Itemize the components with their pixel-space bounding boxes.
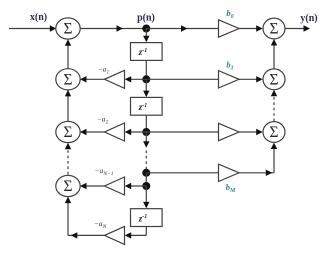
delay Z1 (z^-1) xyxy=(131,43,163,61)
svg-text:x(n): x(n) xyxy=(30,12,47,23)
wire U7 up to U6 dashed xyxy=(271,90,277,122)
svg-text:p(n): p(n) xyxy=(137,13,155,24)
wire p(n) down to delay Z1 xyxy=(143,29,149,43)
gain bM (triangle) xyxy=(219,164,240,181)
wire -a2 to summer U3 xyxy=(80,129,105,135)
node N2 junction dot xyxy=(142,75,150,83)
node N4 junction dot xyxy=(142,169,150,177)
summer U2 (second-left sigma) xyxy=(56,69,80,90)
wire -aN-1 to summer U4 xyxy=(80,183,105,189)
wire -a1 to summer U2 xyxy=(80,76,105,82)
summer U7 (third-right sigma) xyxy=(263,122,285,143)
svg-text:Σ: Σ xyxy=(63,178,72,195)
node p(n) junction dot xyxy=(142,25,150,33)
summer U1 (top-left sigma) xyxy=(56,18,80,39)
svg-text:Σ: Σ xyxy=(269,21,278,38)
svg-text:Σ: Σ xyxy=(63,124,72,141)
svg-text:Σ: Σ xyxy=(63,71,72,88)
wire N2 to gain -a1 xyxy=(125,76,147,82)
summer U3 (third-left sigma) xyxy=(56,121,80,142)
wire U6 up to U5 xyxy=(271,39,277,69)
wire N5 down to delay Z3 xyxy=(143,186,149,208)
wire b0 to summer U5 xyxy=(239,25,263,31)
wire N3 to gain -a2 xyxy=(125,129,147,135)
svg-text:Σ: Σ xyxy=(63,21,72,38)
wire N3 down dashed to node N4 xyxy=(143,132,149,170)
gain -aN-1 (triangle) xyxy=(105,177,125,195)
gain -aN (triangle) xyxy=(105,226,125,244)
gain -a2 (triangle) xyxy=(105,123,125,141)
wire Z3 down and left to gain -aN xyxy=(125,227,147,239)
svg-text:y(n): y(n) xyxy=(300,13,317,24)
summer U5 (top-right sigma) xyxy=(263,18,285,39)
wire N2 down to delay Z2 xyxy=(143,79,149,97)
wire N4 down to node N5 xyxy=(145,173,147,186)
wire input x(n) to summer U1 xyxy=(9,25,56,31)
gain b1 (triangle) xyxy=(219,71,240,88)
delay Z2 (z^-1) xyxy=(131,97,163,115)
wire b1 to summer U6 xyxy=(239,76,263,82)
wire N3 to gain b2 xyxy=(146,131,218,133)
wire N5 to gain -aN-1 xyxy=(125,183,147,189)
node N3 junction dot xyxy=(142,128,150,136)
wire U4 up to U3 dashed xyxy=(65,143,71,176)
wire -aN left and up to U4 xyxy=(65,197,105,239)
wire N2 to gain b1 xyxy=(146,78,218,80)
node N5 junction dot xyxy=(142,182,150,190)
wire N4 to gain bM xyxy=(146,172,218,174)
wire b2 to summer U7 xyxy=(239,129,263,135)
gain b2 (triangle, unlabeled) xyxy=(219,123,240,140)
svg-text:Σ: Σ xyxy=(269,124,278,141)
summer U6 (second-right sigma) xyxy=(263,69,285,90)
wire Z1 to node N2 xyxy=(145,60,147,79)
summer U4 (fourth-left sigma) xyxy=(56,175,80,196)
gain -a1 (triangle) xyxy=(105,70,125,88)
wire p(n) to gain b0 xyxy=(146,25,218,31)
wire Z2 to node N3 xyxy=(145,115,147,132)
wire bM right and up to U7 xyxy=(239,143,277,177)
gain b0 (triangle) xyxy=(219,20,240,37)
wire U3 up to U2 xyxy=(65,90,71,122)
wire U5 output y(n) xyxy=(285,25,310,31)
wire U2 up to U1 xyxy=(65,39,71,68)
wire U1 to node p(n) xyxy=(80,25,146,31)
delay Z3 (z^-1) xyxy=(131,209,163,227)
svg-text:Σ: Σ xyxy=(269,71,278,88)
